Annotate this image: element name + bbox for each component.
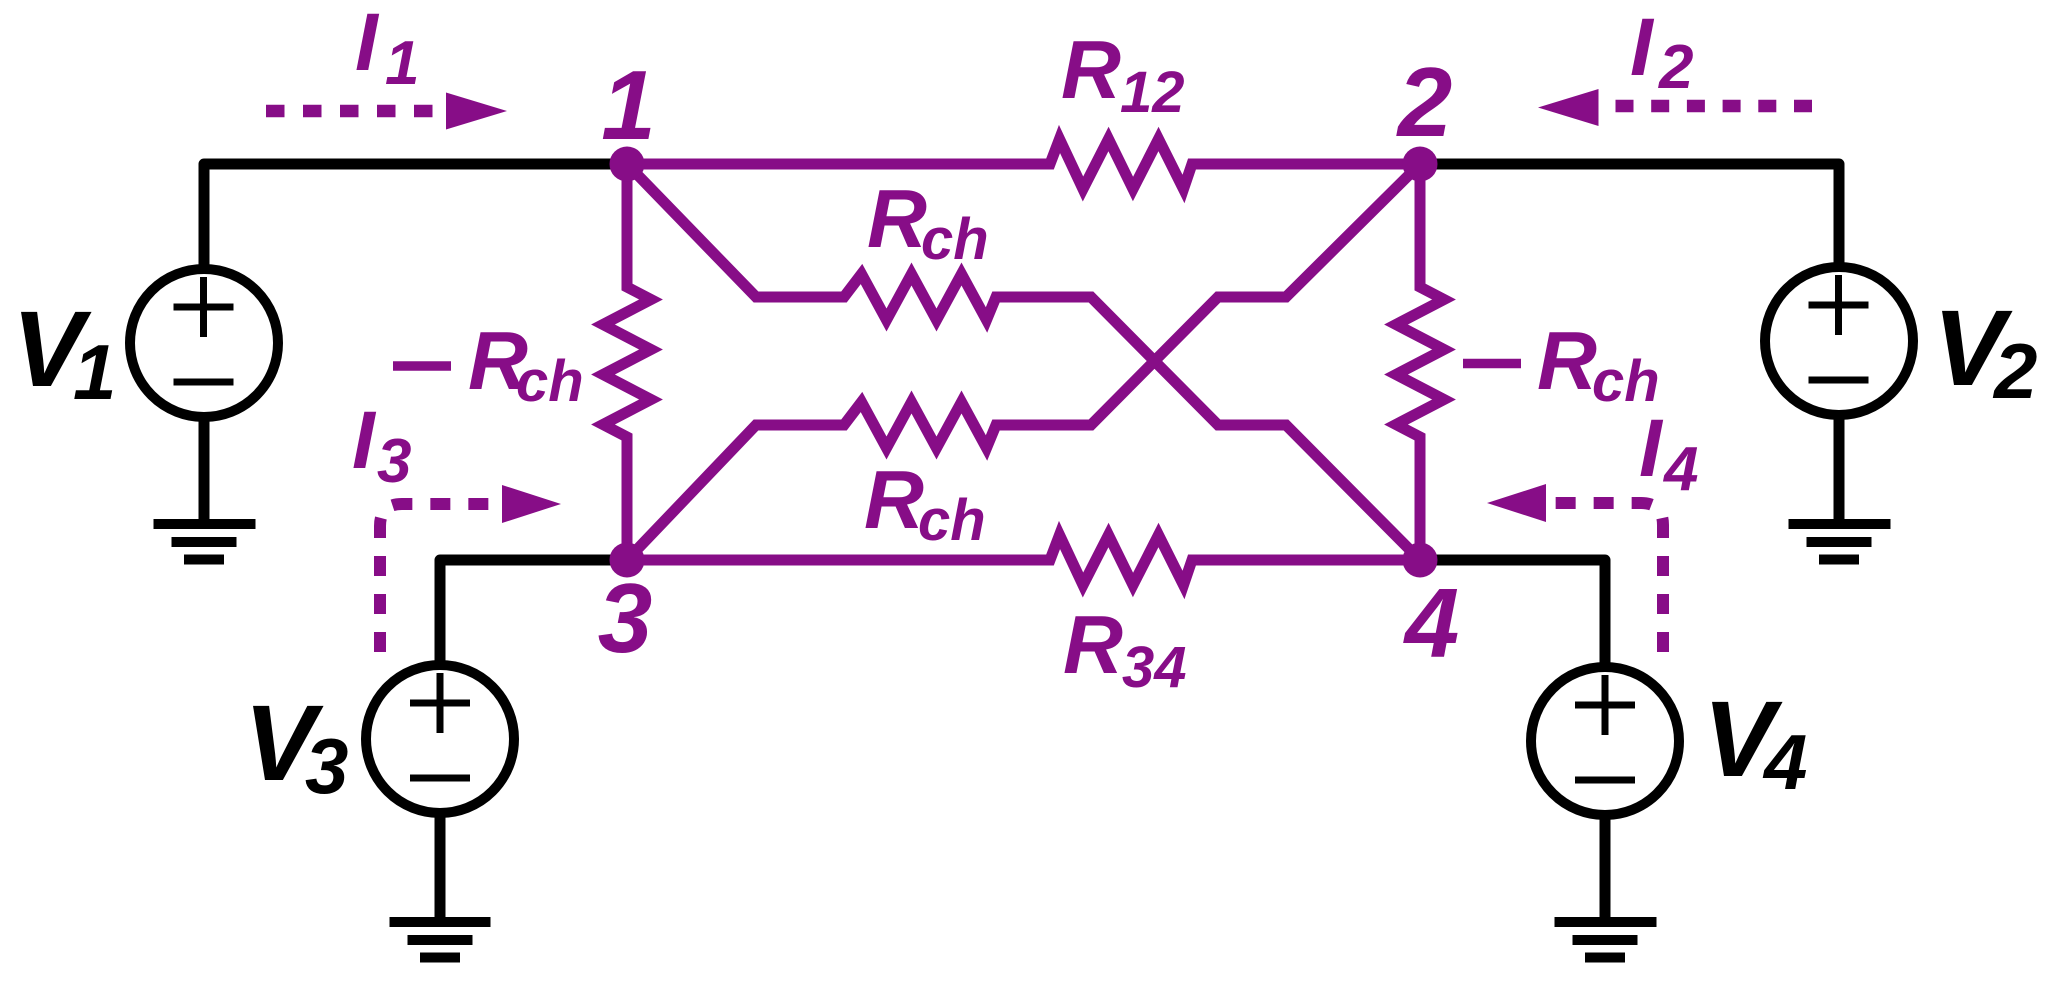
- resistor Rch upper cross (node 1 to node 4): [627, 164, 1420, 560]
- svg-text:3: 3: [377, 427, 411, 496]
- label -Rch right: [1463, 359, 1521, 369]
- svg-text:I: I: [1630, 2, 1655, 93]
- svg-text:34: 34: [1122, 635, 1187, 700]
- ground for V4: [1555, 922, 1657, 958]
- svg-text:ch: ch: [918, 488, 986, 553]
- resistor R12 (top wire node 1 to node 2): [627, 139, 1420, 189]
- wire V3 to node 3: [440, 560, 630, 665]
- svg-text:ch: ch: [516, 349, 584, 414]
- resistor -Rch right (node 2 to node 4): [1396, 164, 1444, 560]
- svg-text:R: R: [864, 453, 924, 546]
- svg-text:3: 3: [305, 722, 348, 810]
- svg-text:R: R: [1063, 598, 1123, 691]
- svg-text:2: 2: [1992, 327, 2037, 415]
- wire V1 to node 1: [204, 164, 630, 268]
- svg-text:3: 3: [598, 563, 653, 673]
- svg-text:1: 1: [73, 328, 116, 416]
- svg-text:1: 1: [601, 50, 656, 160]
- svg-text:I: I: [1639, 403, 1664, 494]
- svg-text:2: 2: [1396, 47, 1453, 157]
- node 3: [610, 543, 645, 578]
- plus sign V3: [410, 673, 470, 733]
- svg-text:ch: ch: [921, 207, 989, 272]
- node 1: [610, 147, 645, 182]
- ground for V1: [154, 524, 256, 560]
- minus sign V4: [1575, 777, 1635, 784]
- label -Rch left: [393, 361, 451, 371]
- minus sign V1: [174, 379, 234, 386]
- plus sign V4: [1575, 675, 1635, 735]
- current arrow I2: [1616, 100, 1815, 113]
- svg-text:ch: ch: [1592, 349, 1660, 414]
- ground for V2: [1789, 524, 1891, 560]
- svg-text:R: R: [1537, 314, 1597, 407]
- svg-text:4: 4: [1403, 568, 1460, 678]
- resistor Rch lower cross (node 3 to node 2): [627, 164, 1420, 560]
- voltage source V3: [366, 665, 514, 813]
- svg-text:I: I: [352, 395, 377, 486]
- current arrow I3: [380, 504, 500, 652]
- resistor R34 (bottom wire node 3 to node 4): [627, 535, 1420, 585]
- node 2: [1403, 147, 1438, 182]
- svg-text:1: 1: [385, 29, 419, 98]
- svg-text:4: 4: [1762, 718, 1807, 806]
- resistor -Rch left (node 1 to node 3): [603, 164, 651, 560]
- svg-text:2: 2: [1658, 33, 1693, 102]
- svg-text:4: 4: [1662, 435, 1698, 504]
- svg-text:I: I: [355, 0, 380, 88]
- current arrow I4: [1550, 503, 1663, 652]
- svg-text:12: 12: [1120, 60, 1185, 125]
- voltage source V4: [1531, 667, 1679, 815]
- svg-text:R: R: [1061, 23, 1121, 116]
- current arrow I1: [266, 105, 440, 118]
- ground for V3: [390, 922, 491, 958]
- minus sign V2: [1809, 377, 1869, 384]
- voltage source V2: [1765, 267, 1913, 415]
- plus sign V1: [174, 277, 234, 337]
- wire node 2 to V2: [1420, 164, 1839, 267]
- svg-text:R: R: [867, 172, 927, 265]
- wire node 4 to V4: [1420, 560, 1605, 667]
- node 4: [1403, 543, 1438, 578]
- plus sign V2: [1809, 275, 1869, 335]
- voltage source V1: [130, 269, 278, 417]
- minus sign V3: [410, 775, 470, 782]
